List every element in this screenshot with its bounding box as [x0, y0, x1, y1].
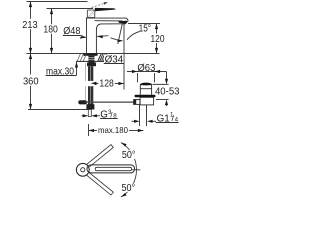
svg-text:G: G [100, 110, 108, 121]
arrow max180 right [138, 129, 144, 132]
15deg label leader [127, 31, 139, 39]
hose thin left line [84, 63, 86, 100]
dim 128 line [91, 82, 99, 84]
40-53 ref line bottom [156, 98, 169, 100]
arrow 15deg arc [117, 39, 122, 42]
arrow 180 bottom [50, 48, 53, 54]
label 50deg bottom [120, 183, 136, 192]
svg-text:50°: 50° [122, 150, 136, 161]
15deg arc arrow line [110, 38, 122, 41]
faucet body outline [86, 10, 128, 53]
underline max.30 [46, 74, 77, 76]
Oe63 ext lines [136, 73, 138, 82]
arrow 180 top [50, 8, 53, 14]
40-53 ref line top [152, 83, 168, 85]
arrow 40-53 bottom(point up) [165, 99, 168, 105]
white gap for 128 dim [85, 81, 95, 86]
svg-text:max.180: max.180 [98, 125, 128, 135]
arrow 128 left [91, 82, 97, 85]
dim 180 [50, 8, 52, 24]
lower tilted arm [87, 173, 113, 195]
arrow Oe63 right(point left) [154, 70, 160, 73]
Oe48 right arrow tail [97, 35, 108, 38]
spout top line [86, 18, 128, 21]
pop-up rod knob on hose [78, 100, 87, 104]
supply hose dark band [88, 66, 93, 104]
deck top line [26, 52, 159, 54]
label G3/8 [100, 109, 117, 121]
max180 ext line left [87, 124, 89, 136]
arm end cross tick [132, 169, 140, 171]
deck hatch left [77, 54, 86, 61]
arrow 120 bottom [155, 48, 158, 54]
waste plug cap (dark lens) [140, 83, 153, 86]
max180 dim line [88, 129, 96, 131]
stream tilted line 15deg [118, 24, 122, 44]
rod-waste connector [134, 100, 140, 105]
waste flange (dark bar) [134, 95, 155, 98]
arrow 40-53 top(point down) [165, 79, 168, 85]
upper tilted arm [87, 145, 113, 167]
dashed raise arrow [91, 3, 104, 7]
G114 callout line [131, 120, 135, 122]
arrow max180 left [88, 129, 94, 132]
svg-text:Ø63: Ø63 [137, 63, 156, 74]
svg-text:120: 120 [150, 34, 164, 45]
spout inner top line [94, 20, 122, 22]
lever handle (dark) [95, 8, 116, 11]
arrow G38 right(point left) [91, 114, 97, 117]
arrow 213 top [29, 1, 32, 7]
label G1 1/4 [156, 111, 179, 124]
arrow 120 top [155, 23, 158, 29]
horizontal arm inner [95, 167, 131, 170]
arrow 360 top [29, 53, 32, 59]
svg-text:Ø34: Ø34 [105, 55, 124, 66]
svg-text:128: 128 [99, 78, 114, 89]
arrow 128 right [118, 82, 124, 85]
waste tailpipe G114 [139, 105, 146, 126]
faucet base bar [83, 53, 97, 55]
ext line 360 bottom [28, 108, 90, 110]
svg-text:360: 360 [23, 76, 39, 87]
pivot circle [76, 163, 89, 176]
Oe48 leader [80, 35, 85, 37]
stream ext line vertical [123, 24, 125, 90]
Oe63 dim line [127, 70, 166, 72]
svg-text:40-53: 40-53 [155, 86, 180, 97]
svg-text:15°: 15° [139, 23, 152, 34]
G38 nipple [88, 109, 91, 116]
deck bottom line [76, 60, 106, 62]
pop-up rod horizontal [85, 101, 134, 103]
underline Oe34 [104, 62, 124, 64]
O34 label bg [104, 55, 124, 63]
waste plug cylinder [140, 85, 151, 95]
dim 120 [128, 22, 160, 24]
arc arrow top [120, 141, 126, 146]
dim 213 [29, 1, 31, 18]
max30 leader [75, 62, 77, 76]
arrow G114 right(point left) [147, 120, 153, 123]
hose gap arrow (128 left arrow overlay) [91, 82, 97, 85]
horizontal arm outer [87, 165, 135, 173]
arrow G114 left(point right) [134, 120, 140, 123]
arrow Oe63 left(point right) [132, 70, 138, 73]
cartridge box shading [88, 11, 94, 17]
arrow G38 left(point right) [83, 114, 89, 117]
cartridge box [87, 10, 94, 17]
deck hatch right [98, 54, 107, 61]
svg-text:50°: 50° [121, 183, 135, 194]
arrow 360 bottom [29, 104, 32, 110]
arrow 213 bottom [29, 48, 32, 54]
deck bottom edge [76, 60, 104, 62]
shank through deck (threaded) [88, 56, 94, 63]
aerator (dark wedge at spout tip) [118, 21, 128, 24]
svg-text:180: 180 [43, 25, 58, 36]
arc arrow bottom [120, 193, 126, 198]
arrow Oe48 right(point left) [97, 35, 103, 38]
arrows (dimension arrowheads) [29, 1, 168, 132]
ext line 213 top [26, 0, 87, 2]
underline Oe48 [63, 34, 80, 36]
hose end connector [86, 104, 94, 109]
svg-text:213: 213 [22, 20, 38, 31]
pivot inner circle [81, 168, 85, 172]
waste body below flange [140, 97, 153, 105]
arrow max30 up [75, 62, 78, 68]
label 50deg top [121, 150, 137, 159]
ext line 180 top [46, 7, 92, 9]
40-53 dim verticals [165, 71, 167, 79]
spout underside + inner corner [96, 24, 125, 53]
dim 360 [29, 53, 31, 74]
body left edge [85, 18, 87, 53]
arrow Oe48 leader [80, 36, 86, 39]
swing arc [121, 142, 136, 196]
G38 arrow tails [81, 115, 83, 117]
mounting nut [87, 62, 96, 66]
texts [22, 20, 180, 135]
